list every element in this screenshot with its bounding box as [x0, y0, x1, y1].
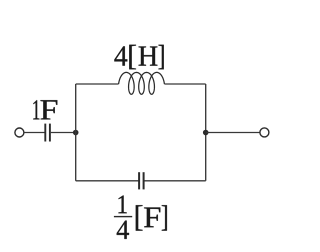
value label 4[H] for inductor L1: [114, 45, 163, 69]
wire C2 to bottom-right corner: [145, 180, 206, 182]
wire input terminal to C1: [24, 132, 45, 134]
wire left rail (node A to top-left and bottom-left corners): [75, 84, 77, 181]
wire bottom-left corner to C2: [76, 180, 139, 182]
node B (right junction dot): [203, 130, 209, 136]
terminal (input, left open circle): [15, 128, 24, 137]
capacitor C1 value 1F (series input cap): [45, 124, 50, 142]
wire node B to output terminal: [206, 132, 260, 134]
wire right rail (top-right to bottom-right corner through node B): [205, 84, 207, 181]
inductor L1 value 4[H] (cute coil, 4 humps / 3 loops): [119, 72, 165, 94]
wire inductor L1 to top-right corner: [164, 83, 205, 85]
value label 1/4[F] numerator 1: [118, 196, 126, 214]
value label 1/4[F] denominator 4: [117, 221, 129, 239]
value label 1F for capacitor C1: [33, 100, 57, 119]
terminal (output, right open circle): [260, 128, 269, 137]
value label 1/4[F] fraction bar: [114, 216, 132, 217]
node A (left junction dot): [73, 130, 79, 136]
capacitor C2 value 1/4[F] (bottom branch): [139, 172, 144, 189]
value label 1/4[F] unit [F]: [136, 205, 167, 230]
wire C1 to node A: [51, 132, 76, 134]
wire top-left corner to inductor L1: [76, 83, 119, 85]
